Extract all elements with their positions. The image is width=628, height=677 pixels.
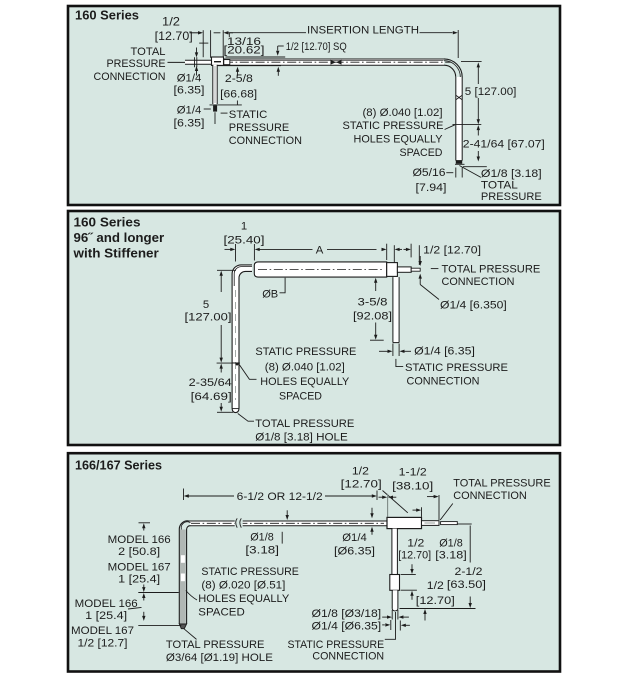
leader tip to total pressure label [184,629,197,640]
svg-text:1/2: 1/2 [407,537,424,549]
svg-text:(8) Ø.020 [Ø.51]: (8) Ø.020 [Ø.51] [201,580,285,592]
svg-text:STATIC PRESSURE: STATIC PRESSURE [343,120,444,132]
2-35/64 [64.69] dimension [220,364,223,369]
extension line at insertion end [457,30,459,58]
svg-text:SPACED: SPACED [198,607,245,619]
panel 3 background: 166/167 Series [68,453,560,671]
converging arrows at fitting left [379,496,384,498]
svg-text:TOTAL: TOTAL [481,180,518,192]
main tube p3 white fill [190,521,387,526]
centerline p3 [191,522,384,524]
ferrule at stiffener right end [387,263,398,277]
svg-text:1/2 [12.70]: 1/2 [12.70] [423,244,481,256]
tube below compression fitting [393,590,398,608]
static holes white slots [181,555,185,563]
svg-text:PRESSURE: PRESSURE [481,191,542,203]
stub tip [210,104,242,106]
5 [127.00] dimension left [217,269,236,271]
svg-text:[63.50]: [63.50] [447,579,486,591]
leader from connection to stub [440,504,453,521]
svg-text:Ø5/16: Ø5/16 [413,167,446,179]
svg-text:CONNECTION: CONNECTION [312,651,384,663]
svg-text:TOTAL PRESSURE: TOTAL PRESSURE [442,264,541,276]
svg-text:Ø3/64 [Ø1.19] HOLE: Ø3/64 [Ø1.19] HOLE [166,652,273,664]
svg-text:1 [25.4]: 1 [25.4] [118,574,160,586]
svg-text:2-41/64 [67.07]: 2-41/64 [67.07] [463,139,545,151]
svg-text:A: A [316,245,324,257]
svg-text:MODEL 166: MODEL 166 [108,534,171,546]
elbow and arrow for 1/8 [281,532,283,544]
tube centerline grey dashes [235,290,237,400]
svg-text:[38.10]: [38.10] [392,481,433,493]
leader from PRESSURE to stub [168,61,188,63]
dia arrows at static tube [379,350,388,352]
svg-text:HOLES EQUALLY: HOLES EQUALLY [260,376,349,388]
vertical sensing tube right [456,77,461,161]
1/2 [12.70] dimension right [395,248,400,251]
5 [127.00] dimension [461,60,482,62]
svg-text:1 [25.4]: 1 [25.4] [85,610,127,622]
svg-text:STATIC: STATIC [229,109,267,121]
bend inner wall [239,271,252,408]
arrow up to tip level [424,613,426,621]
model dimension column lower [142,593,145,598]
tube tip rounded cap [232,409,239,413]
svg-text:5 [127.00]: 5 [127.00] [465,86,517,98]
extension at tip level right [400,608,476,610]
svg-text:CONNECTION: CONNECTION [229,135,302,147]
extension right of stub [457,523,471,525]
svg-text:MODEL 166: MODEL 166 [75,598,138,610]
svg-text:[Ø6.35]: [Ø6.35] [334,545,375,557]
svg-text:1: 1 [241,221,247,233]
stiffener tube [254,262,386,277]
bend outer wall [232,265,252,409]
extension lines at fitting [202,30,204,57]
tip rounded cap p3 right [392,609,398,611]
svg-text:166/167 Series: 166/167 Series [75,458,162,473]
telescoping joint square right of fitting [224,60,230,65]
extension at tip level [138,624,181,626]
svg-text:CONNECTION: CONNECTION [442,276,515,288]
diameter tick marks on stub [194,57,196,67]
svg-text:TOTAL: TOTAL [131,46,166,58]
ticks below static tube [392,344,394,357]
svg-text:with Stiffener: with Stiffener [72,246,158,261]
insertion length dimension line [228,33,230,38]
svg-text:6-1/2 OR 12-1/2: 6-1/2 OR 12-1/2 [237,491,323,503]
leader to holes equally text [186,591,197,601]
svg-text:Ø1/8 [Ø3/18]: Ø1/8 [Ø3/18] [312,608,382,620]
svg-text:Ø1/4: Ø1/4 [177,105,202,117]
extension line at static holes [453,124,482,126]
extension line at stub start [438,495,440,520]
tube centerline dash-dot [224,61,451,63]
extension at static holes [217,362,240,364]
left bend p3 [179,521,189,624]
svg-text:Ø1/8 [3.18]: Ø1/8 [3.18] [481,168,542,180]
extension line mid [138,592,179,594]
svg-text:Ø1/8: Ø1/8 [250,531,274,543]
stub A right of fitting [422,521,440,526]
extension ticks at stiffener end [386,244,388,260]
SQ elbow leader with down arrow [278,45,284,47]
svg-text:[7.94]: [7.94] [416,182,447,194]
static tube right p2 [394,277,399,343]
2-41/64 [67.07] dimension [477,125,480,130]
square section top line [226,56,286,58]
svg-text:Ø1/4: Ø1/4 [342,532,367,544]
panel 1 background: 160 Series [68,6,560,205]
svg-text:CONNECTION: CONNECTION [407,376,480,388]
svg-text:[64.69]: [64.69] [191,391,232,403]
svg-text:[92.08]: [92.08] [353,311,392,323]
svg-text:Ø1/4 [6.350]: Ø1/4 [6.350] [440,299,507,311]
svg-text:2-1/2: 2-1/2 [455,566,483,578]
leader dash to total pressure connection [431,268,439,270]
svg-text:CONNECTION: CONNECTION [453,490,527,502]
arrows for 1/4 [371,508,373,514]
arrow to fitting bottom [411,595,413,600]
svg-text:[66.68]: [66.68] [220,89,257,101]
connection fitting block [212,57,224,65]
A dimension line [255,248,260,251]
svg-text:[3.18]: [3.18] [245,545,279,557]
stub tube B thin [411,268,420,271]
svg-text:Ø1/8: Ø1/8 [439,537,463,549]
svg-text:[12.70]: [12.70] [341,478,382,490]
svg-text:160 Series: 160 Series [74,215,141,230]
svg-text:TOTAL PRESSURE: TOTAL PRESSURE [453,477,551,489]
stub B thin [441,522,458,525]
svg-text:3-5/8: 3-5/8 [358,297,388,309]
extension line grey at fitting left [387,494,389,517]
connector dash from 1 [25.4] [128,607,142,609]
svg-text:2 [50.8]: 2 [50.8] [118,546,160,558]
svg-text:STATIC PRESSURE: STATIC PRESSURE [255,346,356,358]
dia 1/4 arrows above/below stub [196,48,198,54]
left stub tube (total pressure) [185,60,212,64]
elbow from connection to tip [385,612,396,639]
svg-text:[3.18]: [3.18] [435,550,467,562]
svg-text:HOLES EQUALLY: HOLES EQUALLY [354,134,443,146]
svg-text:1/2: 1/2 [162,14,180,28]
svg-text:PRESSURE: PRESSURE [229,122,290,134]
svg-text:2-35/64: 2-35/64 [189,377,232,389]
svg-text:1/2: 1/2 [352,466,369,478]
svg-text:[6.35]: [6.35] [174,85,205,97]
svg-text:CONNECTION: CONNECTION [94,71,166,83]
6-1/2 OR 12-1/2 dimension [183,489,185,501]
dia 5/16 ticks below tip [455,168,457,178]
model dimension column upper [139,522,151,524]
static holes mark on tube [232,362,239,364]
svg-text:[12.70]: [12.70] [416,595,455,607]
svg-text:1/2: 1/2 [427,580,444,592]
svg-text:1/2 [12.70] SQ: 1/2 [12.70] SQ [286,41,347,53]
arrow at fitting right edge [413,509,418,511]
svg-text:STATIC PRESSURE: STATIC PRESSURE [201,566,299,578]
svg-text:SPACED: SPACED [400,147,443,159]
svg-text:Ø1/4: Ø1/4 [177,73,202,85]
arrows for bottom dia 1/4 [382,624,385,626]
svg-text:STATIC PRESSURE: STATIC PRESSURE [288,639,385,651]
svg-text:(8) Ø.040 [1.02]: (8) Ø.040 [1.02] [363,107,443,119]
svg-text:[12.70]: [12.70] [155,29,193,43]
3-5/8 [92.08] dimension [374,278,377,283]
svg-text:TOTAL PRESSURE: TOTAL PRESSURE [166,639,265,651]
svg-text:Ø1/4 [6.35]: Ø1/4 [6.35] [414,346,475,358]
svg-text:160 Series: 160 Series [75,8,139,23]
extension at fitting bottom [401,589,417,591]
tube break marks [235,520,243,527]
arrow toward stub ext [427,496,434,498]
arrow to fitting top [411,564,413,570]
svg-text:[127.00]: [127.00] [185,311,232,323]
svg-text:Ø1/8 [3.18] HOLE: Ø1/8 [3.18] HOLE [255,432,348,444]
leader to static holes [445,125,455,130]
stub tube A [397,267,411,272]
2-5/8 [66.68] dimension below tube [237,71,239,76]
T fitting p3 [387,517,422,528]
svg-text:MODEL 167: MODEL 167 [108,562,171,574]
main tube p3 walls [188,520,387,522]
svg-text:[20.62]: [20.62] [224,44,265,56]
stiffener centerline [258,269,384,271]
bend middle line [234,267,252,286]
compression fitting p3 [390,575,400,591]
svg-text:MODEL 167: MODEL 167 [71,625,134,637]
dia 1/4 [6.350] stub arrows [419,256,421,263]
svg-text:TOTAL PRESSURE: TOTAL PRESSURE [255,418,354,430]
arrows for bottom dia 1/8 [382,616,387,618]
tube joint X mark [456,95,462,100]
svg-text:[25.40]: [25.40] [224,234,265,246]
svg-text:(8) Ø.040 [1.02]: (8) Ø.040 [1.02] [265,361,345,373]
vertical tube p3 grey fill [180,530,186,625]
vertical tube below T [393,529,397,575]
static pressure connection label p2 [396,359,403,367]
inner tube white fill and left bend [232,265,252,409]
static pressure stub tube (vertical) [213,65,217,104]
svg-text:ØB: ØB [262,288,278,300]
break bowtie on centerline [331,60,337,65]
svg-text:96˝ and longer: 96˝ and longer [74,230,165,245]
svg-text:1/2 [12.7]: 1/2 [12.7] [78,638,128,650]
square section bottom line [218,65,281,67]
leader to holes text [239,365,256,380]
extension at fitting top [401,574,416,576]
svg-text:[12.70]: [12.70] [398,550,431,562]
tube tip (total pressure) [456,160,462,164]
tube tip p3 [179,624,186,629]
svg-text:PRESSURE: PRESSURE [107,58,166,70]
svg-text:HOLES EQUALLY: HOLES EQUALLY [198,593,289,605]
cross tick on extension [199,42,208,44]
svg-text:STATIC PRESSURE: STATIC PRESSURE [405,362,508,374]
svg-text:2-5/8: 2-5/8 [225,73,253,85]
svg-text:SPACED: SPACED [279,391,322,403]
leaders to total pressure label [459,166,481,178]
panel 2 background: 160 Series 96in and longer with Stiffener [68,211,560,445]
svg-text:1-1/2: 1-1/2 [399,467,427,479]
total pressure hole label p2 [238,414,254,422]
leader from 12.70 to fitting [383,491,408,513]
2-1/2 [63.50] dimension [469,526,471,563]
svg-text:[6.35]: [6.35] [174,118,205,130]
main tube 160 series [224,59,445,65]
svg-text:5: 5 [203,299,209,311]
svg-text:Ø1/4 [Ø6.35]: Ø1/4 [Ø6.35] [312,620,382,632]
extension at tip [217,411,233,413]
right bend of tube [444,59,462,77]
svg-text:INSERTION LENGTH: INSERTION LENGTH [307,25,419,37]
static pressure connection label [221,112,228,114]
